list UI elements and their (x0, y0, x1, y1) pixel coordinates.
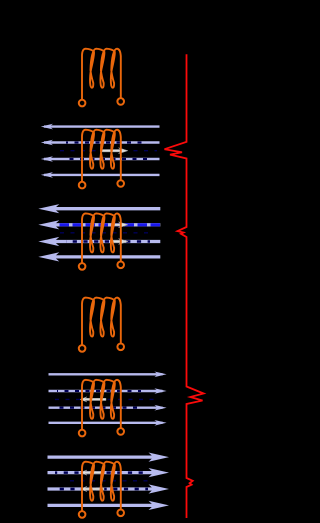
induced voltage trace (time axis vertical) (165, 54, 204, 518)
field line arrow thick (left) (48, 207, 160, 210)
field line arrow thick (right) (48, 487, 156, 490)
field line arrow thick (left) (48, 255, 160, 258)
field line arrow (right) (49, 422, 163, 424)
coil L1 right terminal (117, 98, 124, 105)
field line arrow (left) (44, 125, 160, 127)
coil L2 left terminal (79, 182, 86, 189)
field line arrow (right) (49, 390, 163, 392)
dashed flux overlay row3 (57, 407, 141, 409)
coil L3 right terminal (117, 262, 124, 269)
coil L2 right terminal (117, 180, 124, 187)
coil L5 left terminal (79, 430, 86, 437)
dashed flux overlay row3 (55, 488, 148, 491)
dashed flux overlay row2 (66, 141, 148, 143)
field line arrow thick (right) (48, 455, 156, 458)
induced B arrow coil 3 upper (right) (112, 222, 129, 228)
axis field line group 2 (dashed) (60, 150, 157, 152)
coil L3 left terminal (79, 263, 86, 270)
dashed flux overlay row2 (57, 390, 141, 392)
axis field line group 5 (dashed) (55, 398, 158, 400)
field line arrow thick (left) (48, 240, 160, 243)
coil L4 right terminal (117, 344, 124, 351)
dashed flux overlay row2 (55, 471, 148, 474)
coil L6 right terminal (117, 510, 124, 517)
field line arrow (left) (44, 158, 160, 160)
coil L5 (solenoid winding) (82, 380, 121, 430)
field line arrow (right) (49, 373, 163, 375)
field line arrow thick (right) (48, 471, 156, 474)
axis field line group 3 (dashed) (60, 232, 150, 234)
induced B arrow coil 6 upper (left) (80, 470, 104, 475)
field line arrow (left) (44, 174, 160, 176)
coil L5 right terminal (117, 428, 124, 435)
dashed flux overlay row3 (66, 158, 148, 160)
coil L1 (solenoid winding) (82, 49, 121, 100)
coil L1 left terminal (79, 100, 86, 107)
induced B arrow coil 5 (left) (80, 397, 106, 402)
field line arrow thick (left) (48, 223, 160, 226)
field line arrow (left) (44, 141, 160, 143)
coil L2 (solenoid winding) (82, 130, 121, 182)
coil L3 (solenoid winding) (82, 213, 121, 263)
coil L6 (solenoid winding) (82, 462, 121, 512)
induced B arrow coil 3 lower (right) (112, 239, 129, 245)
coil L4 left terminal (79, 345, 86, 352)
field line arrow thick (right) (48, 504, 156, 507)
axis field line group 6 (dashed) (70, 480, 150, 482)
coil L4 (solenoid winding) (82, 298, 121, 346)
dashed flux overlay row3 (66, 240, 150, 243)
induced B arrow coil 6 lower (left) (80, 486, 104, 491)
field line arrow (right) (49, 407, 163, 409)
blue flux line (strong) on row2 (60, 223, 161, 226)
induced B arrow coil 2 (right) (102, 148, 129, 154)
coil L6 left terminal (79, 511, 86, 518)
